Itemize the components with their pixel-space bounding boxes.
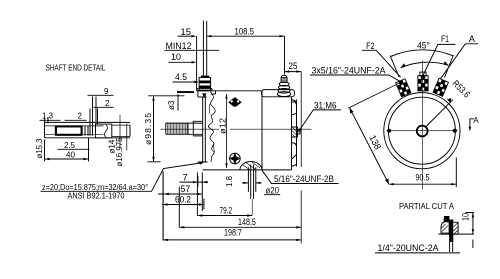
svg-text:2: 2	[78, 112, 83, 121]
partial cut stud	[438, 216, 474, 252]
dia 3 leader	[167, 91, 207, 110]
shaft hole	[417, 126, 428, 137]
svg-text:F2: F2	[366, 41, 375, 51]
svg-text:1/4"-20UNC-2A: 1/4"-20UNC-2A	[378, 243, 440, 253]
radius R53.6	[426, 78, 472, 126]
svg-text:90.5: 90.5	[416, 173, 430, 183]
dimension 40	[45, 138, 89, 162]
horizontal centerline	[387, 130, 458, 132]
svg-text:10: 10	[171, 52, 181, 62]
shaft detail spline section	[56, 126, 82, 134]
dimension 2 left	[65, 112, 87, 121]
terminal cover top right	[262, 90, 295, 97]
end view inner circle	[388, 97, 455, 164]
45 degree dimension arc	[390, 41, 453, 78]
svg-text:4.5: 4.5	[175, 72, 187, 82]
svg-text:5/16"-24UNF-2B: 5/16"-24UNF-2B	[274, 174, 334, 184]
end view outer circle	[384, 93, 460, 169]
svg-text:2.5: 2.5	[64, 141, 76, 150]
svg-text:25: 25	[289, 61, 298, 71]
dimension 2 upper	[94, 99, 114, 108]
label dia 20	[264, 185, 280, 195]
svg-text:ø15.3: ø15.3	[35, 138, 44, 159]
right top tab	[292, 102, 297, 115]
dimension MIN12	[164, 41, 219, 51]
section mark A right	[469, 116, 480, 132]
target symbol bottom	[229, 152, 241, 164]
svg-text:45°: 45°	[417, 41, 430, 51]
dimension 60.2	[162, 195, 204, 210]
side view front flange	[198, 91, 208, 162]
diagonal dimension 138	[348, 81, 403, 184]
svg-text:138: 138	[367, 133, 383, 151]
svg-text:F1: F1	[441, 34, 449, 44]
svg-text:15: 15	[181, 27, 192, 37]
svg-text:ANSI B92.1-1970: ANSI B92.1-1970	[68, 192, 126, 201]
svg-text:A: A	[473, 116, 479, 125]
right M6 terminal	[292, 127, 301, 137]
spline data note	[41, 161, 205, 192]
right stud A	[433, 78, 448, 96]
center stud F1	[418, 72, 428, 91]
svg-text:148.5: 148.5	[238, 217, 256, 227]
dimension 1.8	[225, 175, 262, 187]
right end cap	[292, 100, 297, 167]
dimension 90.5	[389, 158, 456, 188]
centerline horizontal	[161, 128, 312, 130]
bolt hole left	[387, 129, 391, 133]
right bottom tab	[292, 143, 297, 160]
label A top	[441, 34, 479, 79]
svg-text:60.2: 60.2	[175, 195, 191, 205]
dimension 4.5	[173, 72, 200, 83]
svg-text:7: 7	[183, 172, 188, 182]
svg-text:R53.6: R53.6	[451, 78, 472, 99]
svg-text:57: 57	[181, 184, 191, 194]
svg-text:31;M6: 31;M6	[314, 100, 337, 110]
svg-text:79.2: 79.2	[220, 206, 233, 216]
broken-out section wavy line	[208, 92, 215, 162]
dimension 15	[178, 27, 197, 37]
label 5/16-24UNF-2B	[262, 170, 339, 184]
mounting boss	[240, 162, 262, 216]
shaft detail outline	[45, 122, 131, 137]
dimension 148.5	[179, 187, 301, 229]
shaft detail large dia section	[96, 115, 131, 151]
label F1	[423, 34, 456, 76]
dimension 198.7	[163, 228, 301, 241]
dimension 2.5	[58, 141, 90, 150]
right stud side view	[277, 75, 291, 96]
motor body outline	[198, 91, 292, 170]
svg-text:10: 10	[460, 213, 470, 221]
svg-text:ø98.35: ø98.35	[143, 113, 153, 145]
svg-text:3x5/16"-24UNF-2A: 3x5/16"-24UNF-2A	[312, 65, 387, 75]
dimension dia 98.35	[143, 96, 185, 162]
target symbol top	[228, 97, 242, 107]
svg-text:A: A	[469, 34, 476, 44]
left shared extension line	[162, 172, 164, 241]
dimension 108.5	[207, 27, 285, 75]
label 31;M6	[298, 100, 341, 132]
svg-text:ø16.975: ø16.975	[115, 137, 124, 167]
extension line right of boss	[300, 72, 302, 244]
label F2	[362, 41, 401, 77]
bolt hole right	[453, 129, 457, 133]
dimension 79.2	[197, 173, 252, 217]
dimension 9	[88, 87, 114, 96]
label 1/4-20UNC-2A	[375, 243, 460, 253]
dimension 10 partial cut	[460, 213, 474, 249]
svg-text:ø20: ø20	[266, 185, 280, 195]
svg-text:198.7: 198.7	[224, 228, 242, 238]
svg-text:2: 2	[105, 99, 110, 108]
svg-text:ø12: ø12	[219, 117, 228, 134]
svg-text:PARTIAL CUT A: PARTIAL CUT A	[399, 201, 454, 211]
dimension 25	[284, 61, 301, 73]
top stud side view	[197, 21, 216, 94]
svg-text:9: 9	[104, 87, 109, 96]
dimension 1.3	[40, 112, 61, 124]
vertical centerline	[421, 61, 423, 190]
dimension 7	[180, 172, 209, 211]
svg-text:40: 40	[66, 151, 75, 160]
svg-text:MIN12: MIN12	[166, 41, 192, 51]
dimension 57	[158, 184, 203, 195]
left stud F2	[396, 79, 411, 97]
svg-text:ø3: ø3	[167, 100, 176, 110]
svg-text:108.5: 108.5	[235, 27, 255, 37]
label 3x5/16-24UNF-2A	[310, 65, 400, 81]
svg-text:SHAFT END DETAIL: SHAFT END DETAIL	[46, 64, 106, 73]
dimension 10	[168, 52, 196, 64]
shaft detail groove verticals	[85, 97, 98, 136]
svg-text:1.8: 1.8	[225, 175, 234, 187]
side view shaft	[166, 121, 203, 136]
dia 12 dimension	[219, 94, 228, 168]
